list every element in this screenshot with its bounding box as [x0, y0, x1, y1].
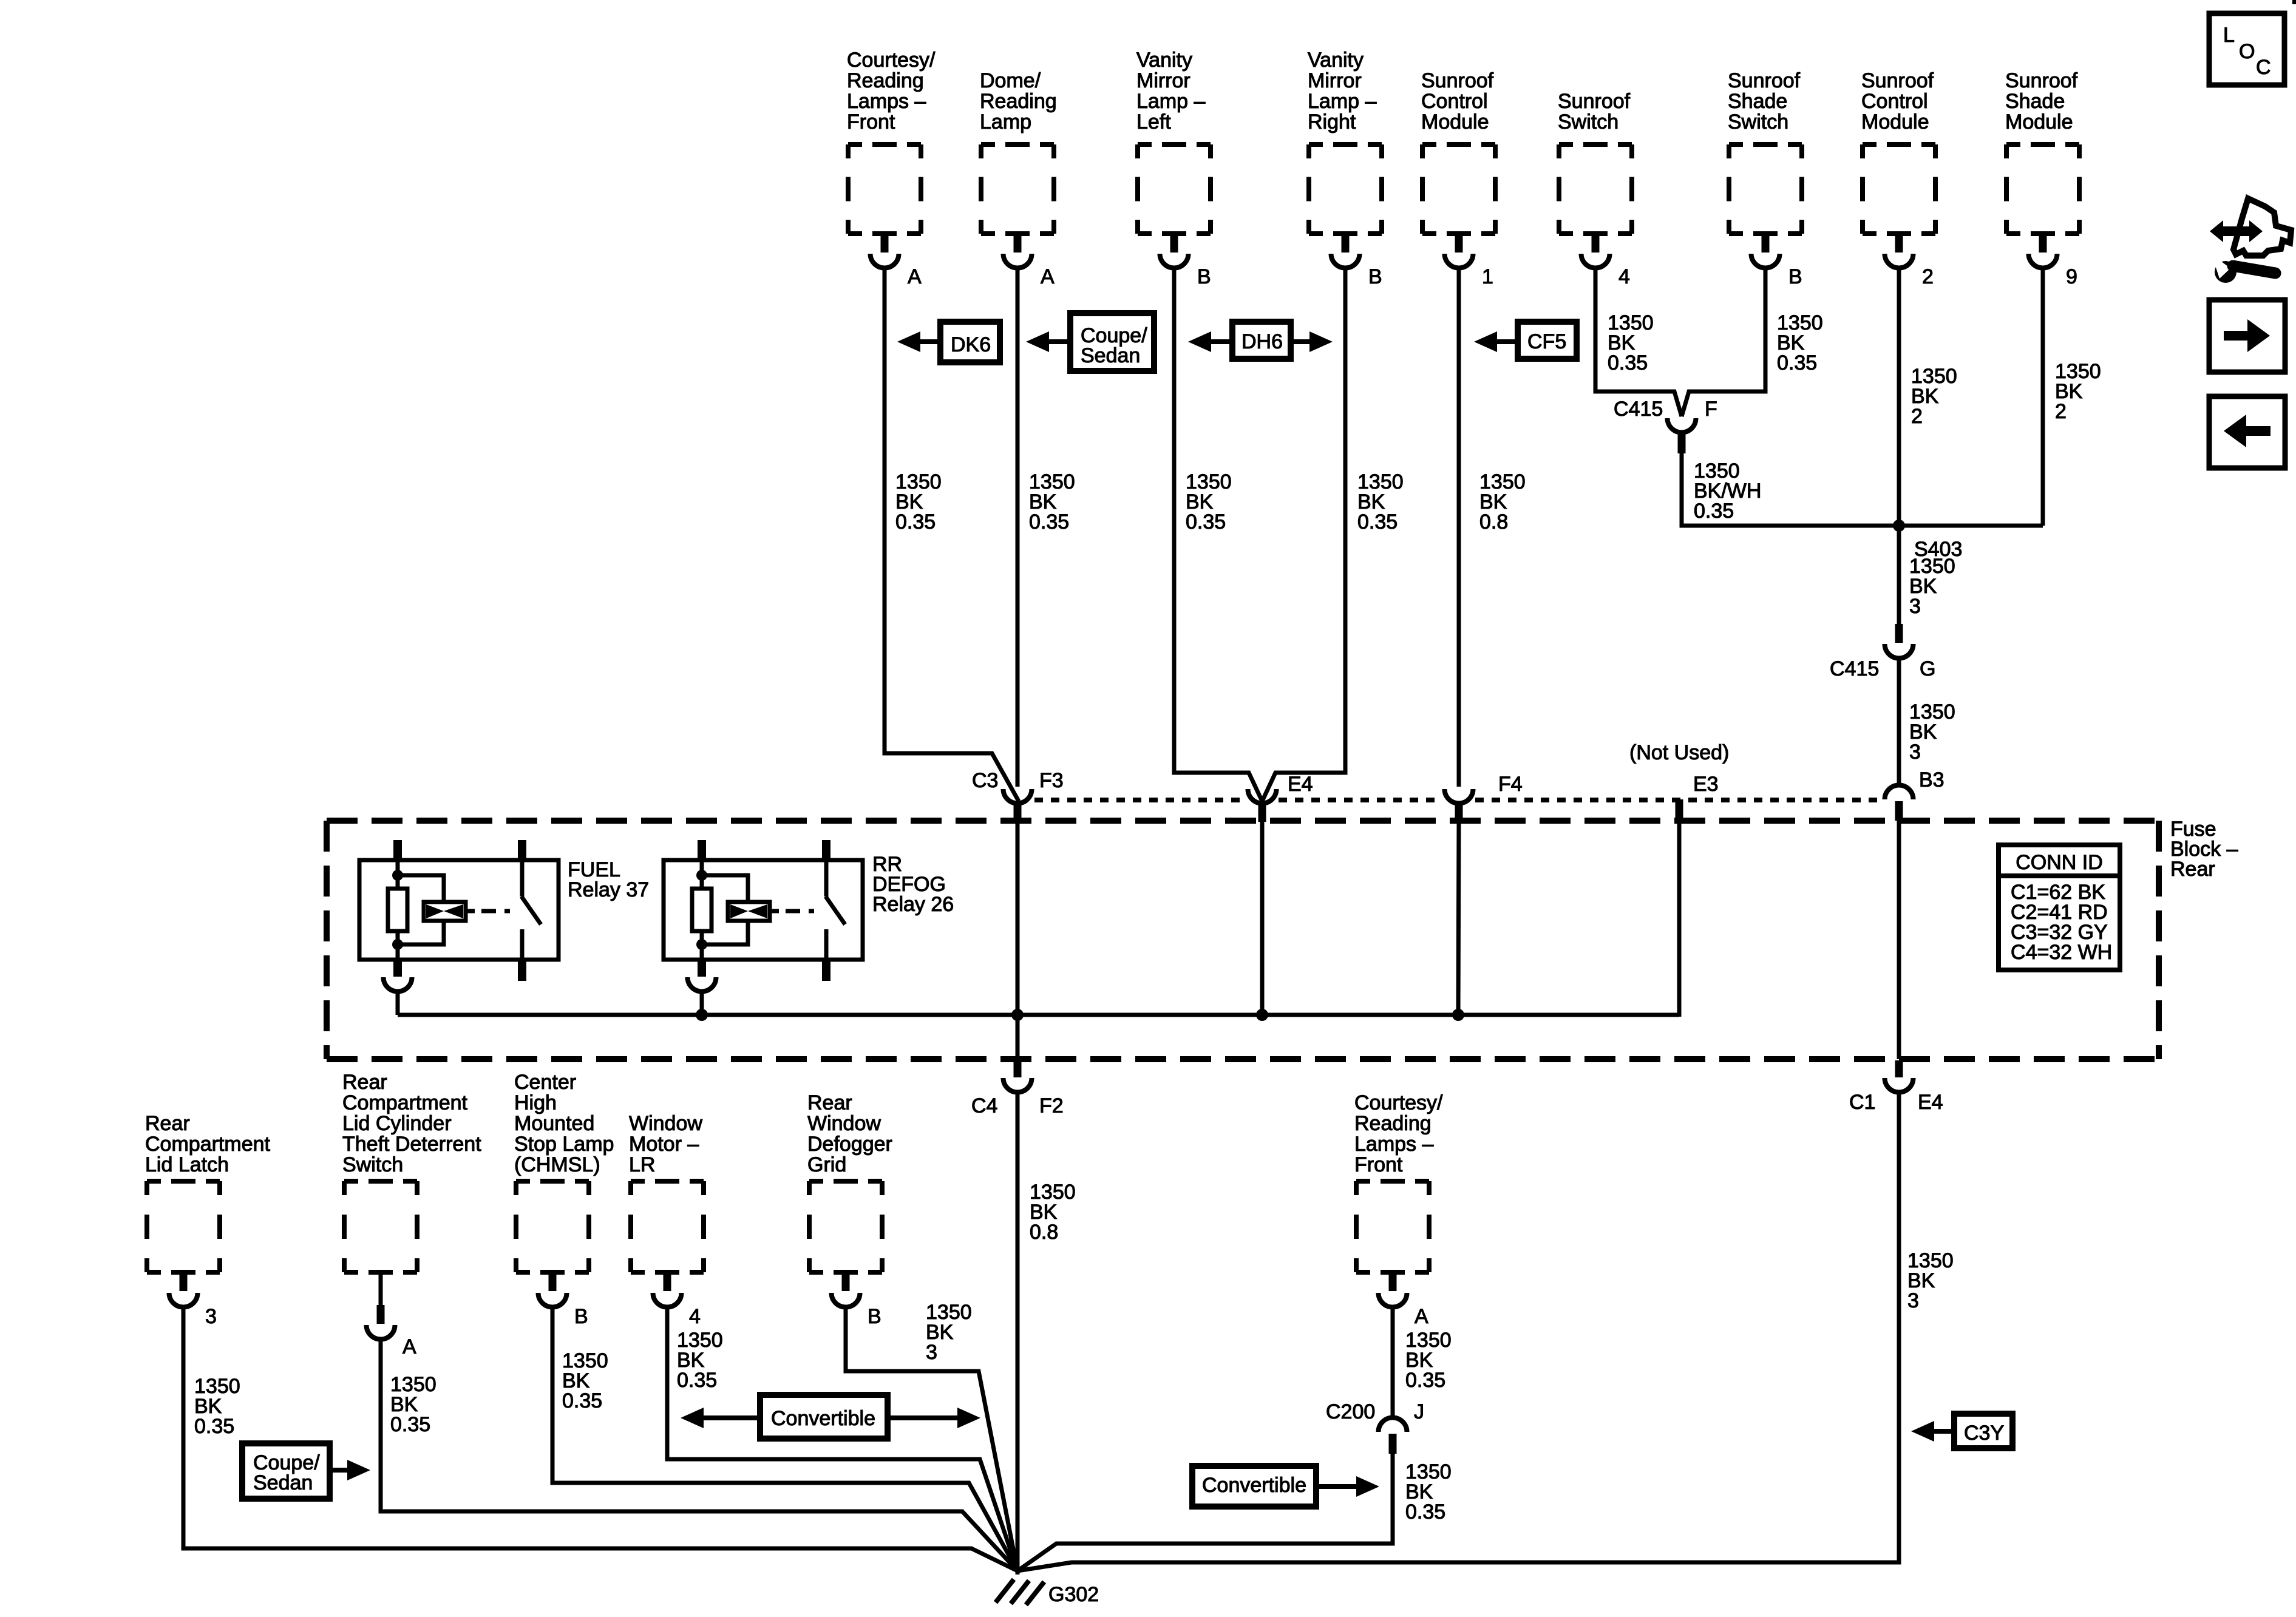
harness ref DK6 with left arrow: [897, 322, 1000, 362]
wire label 1350 BK 0.35 (theft deterrent): [390, 1373, 436, 1436]
junction dot bus/E4 wire: [1256, 1009, 1268, 1021]
component Sunroof Shade Switch: [1728, 69, 1802, 288]
svg-text:C: C: [2256, 56, 2271, 79]
LOC legend box: [2209, 13, 2284, 85]
variant box Convertible (window motor) with double arrows: [681, 1395, 980, 1439]
variant box Coupe/Sedan (top) with left arrow: [1026, 313, 1154, 371]
svg-text:3: 3: [926, 1341, 937, 1364]
svg-text:4: 4: [689, 1305, 701, 1328]
svg-text:Relay 37: Relay 37: [568, 878, 649, 901]
svg-text:4: 4: [1618, 265, 1630, 288]
wire label 1350 BK 0.35 (sunroof switch): [1608, 311, 1654, 375]
svg-text:Mirror: Mirror: [1308, 69, 1362, 92]
svg-text:Vanity: Vanity: [1136, 49, 1192, 72]
svg-text:Shade: Shade: [1728, 90, 1787, 113]
wire label 1350 BK/WH 0.35: [1694, 459, 1761, 523]
wire label 1350 BK 0.8 (C4 to G302): [1030, 1181, 1076, 1244]
back arrow box: [2209, 396, 2285, 468]
wire window motor 4 to G302: [667, 1306, 1017, 1571]
wire sunroof control 1 to F4: [1457, 268, 1461, 787]
svg-text:Lamps –: Lamps –: [847, 90, 926, 113]
connector C1/E4: [1885, 1060, 1914, 1092]
svg-text:Compartment: Compartment: [145, 1133, 271, 1156]
harness ref CF5 with left arrow: [1474, 322, 1577, 359]
svg-text:Courtesy/: Courtesy/: [1354, 1091, 1443, 1114]
wire F4 to bus: [1458, 822, 1459, 1015]
svg-text:LR: LR: [629, 1153, 655, 1176]
svg-text:3: 3: [1909, 595, 1921, 618]
svg-text:Sunroof: Sunroof: [1861, 69, 1934, 92]
svg-text:F4: F4: [1498, 773, 1523, 796]
pin E3 (not used): [1676, 799, 1683, 821]
label C415 F: [1614, 398, 1717, 421]
label Fuse Block - Rear: [2170, 818, 2238, 881]
svg-text:Sunroof: Sunroof: [1421, 69, 1494, 92]
svg-text:C4=32 WH: C4=32 WH: [2011, 941, 2112, 964]
svg-text:Mirror: Mirror: [1136, 69, 1190, 92]
svg-text:Control: Control: [1861, 90, 1928, 113]
svg-text:Sedan: Sedan: [1081, 344, 1140, 367]
svg-text:DK6: DK6: [951, 333, 991, 356]
page corner tick: [2292, 0, 2296, 4]
svg-text:B3: B3: [1919, 768, 1944, 792]
variant box Convertible (courtesy) with right arrow: [1192, 1466, 1379, 1507]
wire label 1350 BK 2 (shade module): [2055, 360, 2101, 423]
wire label 1350 BK 0.35 (courtesy front): [895, 470, 942, 534]
svg-text:3: 3: [1909, 741, 1921, 764]
svg-text:Lamp –: Lamp –: [1136, 90, 1205, 113]
wire courtesy bottom A to C200 J: [1391, 1306, 1395, 1420]
component Rear Compartment Lid Cylinder Theft Deterrent Switch: [342, 1071, 481, 1272]
svg-text:F: F: [1705, 398, 1717, 421]
svg-text:0.8: 0.8: [1479, 510, 1508, 534]
wire label 1350 BK 0.8 (sunroof control 1): [1479, 470, 1526, 534]
svg-text:Window: Window: [807, 1112, 881, 1135]
svg-text:Lamp: Lamp: [980, 110, 1031, 134]
connector C200 J: [1379, 1417, 1407, 1454]
component Sunroof Shade Module: [2005, 69, 2079, 288]
svg-text:0.35: 0.35: [390, 1413, 430, 1436]
svg-text:(Not Used): (Not Used): [1629, 741, 1729, 764]
svg-text:G302: G302: [1048, 1583, 1099, 1606]
svg-text:Left: Left: [1136, 110, 1171, 134]
svg-text:J: J: [1414, 1400, 1424, 1423]
svg-text:Convertible: Convertible: [1202, 1474, 1306, 1497]
svg-text:DH6: DH6: [1241, 330, 1283, 353]
svg-text:Front: Front: [847, 110, 895, 134]
wire label 1350 BK 3 (C415 G to B3): [1909, 700, 1955, 764]
svg-text:B: B: [1788, 265, 1802, 288]
svg-text:CONN ID: CONN ID: [2016, 851, 2103, 874]
svg-text:3: 3: [205, 1305, 217, 1328]
forward arrow box: [2209, 300, 2285, 372]
svg-text:(CHMSL): (CHMSL): [514, 1153, 600, 1176]
svg-text:0.35: 0.35: [1405, 1369, 1445, 1392]
component Sunroof Switch: [1558, 90, 1632, 288]
svg-text:0.35: 0.35: [895, 510, 936, 534]
relay FUEL Relay 37: [359, 840, 559, 1015]
wire courtesy front A to C3/F3: [885, 268, 1019, 801]
svg-text:Lid Latch: Lid Latch: [145, 1153, 229, 1176]
svg-text:Rear: Rear: [342, 1071, 387, 1094]
svg-text:Mounted: Mounted: [514, 1112, 594, 1135]
label C415 G: [1830, 657, 1935, 680]
wire theft deterrent A to G302: [381, 1339, 1017, 1571]
svg-text:Convertible: Convertible: [771, 1407, 875, 1430]
svg-text:Right: Right: [1308, 110, 1356, 134]
variant box Coupe/Sedan (bottom) with right arrow: [242, 1443, 370, 1499]
harness ref C3Y with left arrow: [1911, 1414, 2012, 1448]
svg-text:B: B: [868, 1305, 881, 1328]
svg-text:Defogger: Defogger: [807, 1133, 892, 1156]
component Dome/Reading Lamp: [980, 69, 1057, 288]
wire label 1350 BK 0.35 (vanity right): [1357, 470, 1404, 534]
wire label 1350 BK 0.35 (shade switch): [1777, 311, 1823, 375]
connector E4 (top): [1248, 789, 1277, 822]
svg-text:Shade: Shade: [2005, 90, 2065, 113]
svg-text:CF5: CF5: [1527, 330, 1566, 353]
junction dot bus/F4 wire: [1452, 1009, 1464, 1021]
wire lid latch 3 to G302: [183, 1306, 1017, 1571]
svg-text:0.35: 0.35: [1357, 510, 1398, 534]
svg-text:2: 2: [1911, 405, 1923, 428]
wire defogger B to G302: [846, 1306, 1017, 1571]
wire label 1350 BK 3 (C1 to G302): [1907, 1249, 1954, 1312]
svg-text:0.8: 0.8: [1030, 1221, 1058, 1244]
component Vanity Mirror Lamp - Left: [1136, 49, 1211, 288]
svg-text:C4: C4: [971, 1094, 997, 1117]
component Center High Mounted Stop Lamp (CHMSL): [514, 1071, 614, 1328]
component Rear Compartment Lid Latch: [145, 1112, 271, 1328]
label RR DEFOG Relay 26: [872, 853, 954, 916]
svg-text:Courtesy/: Courtesy/: [847, 49, 936, 72]
svg-text:3: 3: [1907, 1289, 1919, 1312]
wire sunroof shade module 9 to S403: [2041, 268, 2045, 526]
harness ref DH6 with double arrows: [1188, 322, 1333, 359]
svg-text:0.35: 0.35: [1694, 500, 1734, 523]
svg-text:0.35: 0.35: [1186, 510, 1226, 534]
svg-text:Reading: Reading: [980, 90, 1057, 113]
svg-text:0.35: 0.35: [1608, 351, 1648, 375]
label FUEL Relay 37: [568, 858, 649, 901]
component Window Motor - LR: [629, 1112, 704, 1328]
svg-text:F2: F2: [1039, 1094, 1064, 1117]
connector B3: [1885, 785, 1914, 821]
svg-text:2: 2: [2055, 400, 2067, 423]
svg-text:Switch: Switch: [1558, 110, 1618, 134]
svg-text:Compartment: Compartment: [342, 1091, 468, 1114]
wire label 1350 BK 0.35 (courtesy bottom lower): [1405, 1460, 1452, 1524]
svg-text:0.35: 0.35: [1777, 351, 1817, 375]
wire F3 through fuse block to C4: [1016, 822, 1020, 1059]
svg-text:B: B: [574, 1305, 588, 1328]
wire label 1350 BK 0.35 (window motor): [677, 1329, 723, 1392]
wire C1/E4 to ground G302: [1017, 1093, 1899, 1571]
ground G302 symbol: [996, 1579, 1044, 1605]
svg-text:High: High: [514, 1091, 557, 1114]
wire sunroof shade switch B to C415 F: [1682, 268, 1765, 416]
svg-text:Vanity: Vanity: [1308, 49, 1364, 72]
component Sunroof Control Module (2): [1861, 69, 1935, 288]
svg-text:Theft Deterrent: Theft Deterrent: [342, 1133, 481, 1156]
svg-text:Module: Module: [1421, 110, 1489, 134]
svg-text:C415: C415: [1830, 657, 1879, 680]
dotted connector line (fuse block rear connectors): [1034, 798, 1882, 802]
component Sunroof Control Module (1): [1421, 69, 1495, 288]
wire C4/F2 to ground G302: [1016, 1093, 1020, 1575]
svg-text:C3: C3: [972, 769, 998, 792]
wire label 1350 BK 3 (defogger): [926, 1301, 972, 1364]
svg-text:L: L: [2223, 24, 2235, 47]
wire vanity right B to E4: [1262, 268, 1345, 801]
svg-text:Switch: Switch: [342, 1153, 403, 1176]
wire label 1350 BK 0.35 (dome): [1029, 470, 1075, 534]
ground bus inside fuse block: [398, 1013, 1679, 1017]
component Vanity Mirror Lamp - Right: [1308, 49, 1382, 288]
wire vanity left B to E4: [1174, 268, 1262, 801]
svg-text:A: A: [908, 265, 922, 288]
component Rear Window Defogger Grid: [807, 1091, 892, 1328]
wire sunroof control 2 pin to S403: [1897, 268, 1901, 624]
svg-text:Dome/: Dome/: [980, 69, 1041, 92]
wire E4 to bus: [1260, 822, 1265, 1015]
wire CHMSL B to G302: [552, 1306, 1017, 1571]
svg-text:C200: C200: [1326, 1400, 1375, 1423]
junction dot bus/C4 wire: [1011, 1009, 1024, 1021]
svg-text:B: B: [1368, 265, 1382, 288]
wire label 1350 BK 0.35 (CHMSL): [562, 1349, 608, 1412]
svg-text:Control: Control: [1421, 90, 1488, 113]
svg-text:1: 1: [1482, 265, 1493, 288]
svg-text:A: A: [1041, 265, 1055, 288]
svg-text:Window: Window: [629, 1112, 702, 1135]
svg-text:C3Y: C3Y: [1964, 1422, 2004, 1445]
svg-text:Switch: Switch: [1728, 110, 1788, 134]
svg-text:2: 2: [1922, 265, 1934, 288]
svg-text:E3: E3: [1693, 773, 1719, 796]
wire sunroof switch 4 to C415 F: [1595, 268, 1682, 416]
splice S403: [1893, 520, 1905, 532]
component Courtesy/Reading Lamps - Front (bottom): [1354, 1091, 1443, 1328]
svg-text:Sunroof: Sunroof: [1728, 69, 1801, 92]
junction dot relay 2 output: [696, 1009, 708, 1021]
svg-text:C415: C415: [1614, 398, 1663, 421]
svg-text:Center: Center: [514, 1071, 576, 1094]
wire E3 to bus: [1677, 821, 1682, 1017]
svg-text:Lamps –: Lamps –: [1354, 1133, 1433, 1156]
relay RR DEFOG Relay 26: [664, 840, 863, 1015]
svg-text:Stop Lamp: Stop Lamp: [514, 1133, 614, 1156]
svg-text:Sunroof: Sunroof: [2005, 69, 2078, 92]
svg-text:E4: E4: [1918, 1091, 1943, 1114]
wire label 1350 BK 0.35 (courtesy bottom upper): [1405, 1329, 1452, 1392]
service icon (double arrow, panel outline, wrench): [2210, 198, 2291, 283]
wire label 1350 BK 0.35 (vanity left): [1186, 470, 1232, 534]
inline connector for theft deterrent switch (pin A): [367, 1272, 417, 1358]
wire dome A to F3: [1016, 268, 1020, 787]
svg-text:Module: Module: [2005, 110, 2073, 134]
wire C200 J to G302: [1017, 1454, 1393, 1571]
svg-text:A: A: [402, 1335, 416, 1358]
svg-text:Sunroof: Sunroof: [1558, 90, 1631, 113]
svg-text:0.35: 0.35: [1029, 510, 1069, 534]
fuse block - rear dashed border: [327, 821, 2159, 1059]
svg-text:A: A: [1415, 1305, 1428, 1328]
svg-text:Lamp –: Lamp –: [1308, 90, 1376, 113]
svg-text:Lid Cylinder: Lid Cylinder: [342, 1112, 452, 1135]
svg-text:Grid: Grid: [807, 1153, 846, 1176]
svg-text:0.35: 0.35: [1405, 1500, 1445, 1524]
wire B3 through fuse block to C1: [1897, 821, 1901, 1059]
wire 1350 BK/WH 0.35 from C415 F to S403: [1682, 453, 2043, 526]
wire label 1350 BK 2 (sunroof control 2): [1911, 365, 1957, 428]
CONN ID table: [1999, 845, 2120, 970]
svg-text:Front: Front: [1354, 1153, 1403, 1176]
svg-text:0.35: 0.35: [194, 1415, 234, 1438]
component Courtesy/Reading Lamps - Front: [847, 49, 936, 288]
svg-text:F3: F3: [1039, 769, 1064, 792]
connector C415 G: [1885, 624, 1914, 658]
svg-text:O: O: [2239, 40, 2255, 63]
svg-text:Relay 26: Relay 26: [872, 893, 954, 916]
wire C415 G to B3: [1897, 658, 1901, 787]
svg-text:Rear: Rear: [807, 1091, 852, 1114]
svg-text:Rear: Rear: [2170, 858, 2215, 881]
svg-text:0.35: 0.35: [677, 1369, 717, 1392]
svg-text:G: G: [1920, 657, 1935, 680]
svg-text:Module: Module: [1861, 110, 1929, 134]
connector C3/F3: [1004, 789, 1032, 822]
svg-text:Rear: Rear: [145, 1112, 190, 1135]
svg-text:9: 9: [2066, 265, 2077, 288]
svg-text:Reading: Reading: [847, 69, 924, 92]
svg-text:B: B: [1197, 265, 1211, 288]
connector F4: [1445, 789, 1473, 822]
svg-text:Reading: Reading: [1354, 1112, 1432, 1135]
svg-text:E4: E4: [1288, 773, 1313, 796]
svg-text:C1: C1: [1849, 1091, 1875, 1114]
wire label 1350 BK 0.35 (lid latch): [194, 1375, 240, 1438]
connector C415 F: [1668, 418, 1696, 453]
svg-text:Sedan: Sedan: [253, 1471, 313, 1494]
connector C4/F2: [1004, 1060, 1032, 1092]
wire label 1350 BK 3 (S403 to C415 G): [1909, 555, 1955, 618]
svg-text:Motor –: Motor –: [629, 1133, 699, 1156]
svg-text:0.35: 0.35: [562, 1389, 602, 1412]
